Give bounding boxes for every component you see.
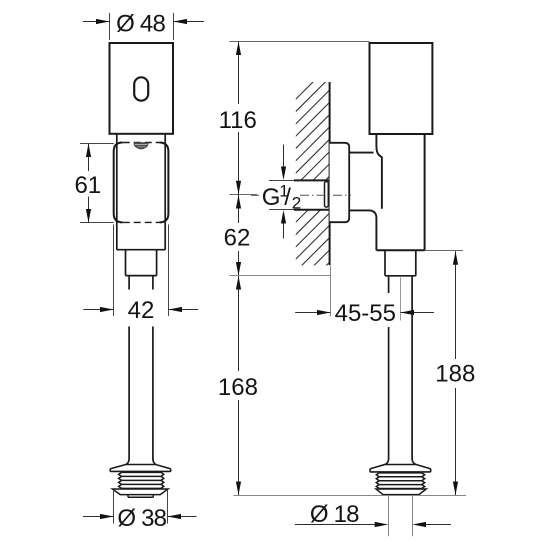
- label 45-55 white backing: [332, 293, 399, 327]
- wire inner cartridge lines: [117, 134, 165, 250]
- body cover left edge: [114, 143, 123, 223]
- dimension line 45-55: [295, 312, 330, 314]
- front outlet flare: [126, 459, 156, 464]
- body cover right edge: [159, 143, 168, 223]
- wall face line: [329, 82, 331, 265]
- side outlet flare: [385, 459, 416, 464]
- dimension line 188: [455, 251, 457, 495]
- sensor box side: [370, 43, 433, 134]
- body side right edge: [424, 134, 426, 250]
- svg-text:188: 188: [435, 361, 475, 388]
- G1/2 supply pipe edges: [294, 180, 330, 209]
- svg-text:42: 42: [128, 297, 155, 324]
- side outlet stub: [389, 495, 412, 496]
- extension lines Ø48: [110, 13, 174, 40]
- svg-text:G: G: [262, 184, 281, 211]
- svg-text:2: 2: [292, 193, 301, 212]
- dimension line 168: [238, 276, 240, 495]
- extension lines Ø38: [114, 490, 168, 524]
- side outlet bottom band: [376, 489, 426, 495]
- reference line pipe end level: [233, 495, 466, 497]
- escutcheon: [330, 143, 350, 222]
- svg-text:Ø 18: Ø 18: [310, 501, 359, 528]
- extension tick G1/2 centre level: [230, 194, 258, 196]
- body side bottom edge: [376, 249, 424, 251]
- body side left edge upper curving into nut right edge: [376, 134, 382, 209]
- dimension line 62: [238, 195, 240, 276]
- pipe stubs: [129, 276, 153, 290]
- extension lines Ø18: [389, 496, 413, 536]
- front outlet stub: [128, 495, 153, 498]
- side outlet flange: [370, 465, 431, 472]
- svg-text:61: 61: [74, 172, 101, 199]
- front outlet bottom band: [113, 489, 169, 495]
- wall hatch: [105, 50, 548, 290]
- small arrow above G1/2 pipe: [283, 145, 285, 169]
- body cover dashed top edge: [123, 142, 160, 144]
- svg-text:116: 116: [219, 107, 257, 134]
- union nut top edge: [349, 152, 373, 154]
- sensor window oval: [134, 77, 148, 100]
- extension line top (box top level): [230, 41, 370, 43]
- ticks at pipe edges: [269, 181, 294, 210]
- GROHE logo: [134, 142, 149, 149]
- reference line outlet level: [230, 275, 330, 277]
- wire side pipe: [389, 276, 413, 460]
- svg-text:45-55: 45-55: [335, 300, 396, 327]
- wire front pipe: [129, 327, 153, 460]
- dimension line 116: [238, 42, 240, 195]
- outlet narrow section side: [385, 250, 416, 275]
- extension line wall face: [330, 266, 332, 317]
- cartridge bottom edge: [117, 249, 165, 251]
- body cover dashed bottom edge: [123, 221, 160, 223]
- front outlet threads: [119, 472, 164, 488]
- extension lines 42: [114, 225, 169, 317]
- dimension line 61: [88, 144, 90, 223]
- union nut bottom edge with fillet into body left edge lower: [349, 210, 376, 250]
- svg-text:Ø 48: Ø 48: [116, 11, 165, 38]
- dimension line Ø48: [83, 21, 204, 23]
- centreline dash-dot: [251, 194, 259, 196]
- small arrow below G1/2 pipe: [283, 222, 285, 239]
- svg-text:Ø 38: Ø 38: [117, 505, 166, 532]
- lower block: [126, 250, 157, 276]
- side outlet threads: [376, 473, 424, 489]
- svg-text:168: 168: [218, 374, 258, 401]
- dimension line Ø18: [295, 524, 451, 526]
- dimension line 42: [83, 309, 198, 311]
- sensor box front: [110, 43, 174, 134]
- front outlet flange: [110, 465, 171, 472]
- svg-text:/: /: [284, 184, 291, 211]
- extension line pipe centre: [400, 278, 402, 321]
- pipe hole in wall: [293, 180, 330, 209]
- dimension line Ø38: [83, 516, 197, 518]
- extension line body bottom level: [425, 250, 463, 252]
- extension lines 61: [80, 144, 114, 223]
- pipe end cap: [325, 182, 329, 208]
- svg-text:62: 62: [224, 225, 251, 252]
